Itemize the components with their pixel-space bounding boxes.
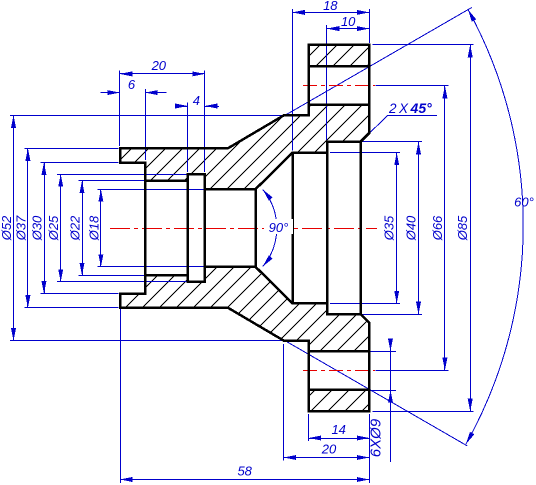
main axis centerline (110, 228, 377, 230)
extension line groove left top (187, 103, 189, 173)
svg-text:Ø37: Ø37 (13, 215, 28, 241)
cone top edge O35 (291, 153, 294, 304)
extension line Ø30 top (41, 162, 119, 164)
dimension line 6 left tail (101, 92, 120, 94)
bolt hole opening lower (309, 351, 370, 390)
extension line Ø18 top (97, 189, 254, 191)
extension line counterbore step top (145, 89, 147, 160)
part outline upper half (120, 45, 369, 189)
extension line Ø40 top (361, 141, 422, 143)
svg-text:60°: 60° (514, 195, 534, 210)
dimension line Ø35 (396, 153, 398, 304)
bore step edge O35/O40 (326, 142, 329, 314)
extension line Ø35 top (330, 152, 400, 154)
dimension line Ø40 (418, 142, 420, 314)
extension line bore face 18 (292, 9, 294, 151)
svg-text:Ø22: Ø22 (68, 215, 83, 241)
cone extension line upper 60deg (230, 8, 472, 148)
extension line Ø18 bottom (97, 266, 254, 268)
svg-text:20: 20 (321, 441, 337, 456)
svg-text:Ø85: Ø85 (455, 215, 470, 241)
extension line Ø35 bottom (330, 303, 400, 305)
extension line shelf bottom (283, 344, 285, 461)
bolt hole opening upper (309, 66, 370, 105)
part outline lower half (120, 267, 369, 411)
dimension line 4 left tail (178, 106, 188, 108)
extension line Ø22 top (79, 180, 145, 182)
dimension line 20 top (120, 73, 205, 75)
dimension line Ø18 (100, 189, 102, 267)
dimension line Ø25 (60, 174, 62, 282)
extension line Ø22 bottom (79, 275, 145, 277)
text mask 90deg (264, 219, 293, 234)
leader line chamfer (370, 115, 388, 133)
svg-text:90°: 90° (269, 220, 289, 235)
extension line Ø37 bottom (24, 307, 118, 309)
bolt hole upper edge top (309, 65, 370, 68)
dimension line 14 (309, 438, 370, 440)
dimension line Ø22 (82, 181, 84, 276)
groove right edge (204, 174, 207, 282)
angle arc 90deg (263, 189, 277, 266)
dimension line Ø52 (13, 115, 15, 340)
dimension line 58 (120, 479, 369, 481)
groove left edge (186, 174, 189, 282)
svg-text:Ø52: Ø52 (0, 215, 14, 241)
svg-text:58: 58 (237, 463, 252, 478)
extension line Ø66 bottom (375, 370, 448, 372)
chamfer edge O40 (360, 142, 363, 314)
extension line Ø25 top (57, 174, 186, 176)
svg-text:2X45°: 2X45° (388, 100, 432, 116)
svg-text:Ø66: Ø66 (430, 215, 445, 241)
extension line Ø37 top (24, 148, 118, 150)
svg-text:14: 14 (331, 422, 345, 437)
dimension line 18 (292, 12, 369, 14)
svg-text:6: 6 (128, 77, 136, 92)
bolt circle centerline lower (303, 370, 375, 372)
dimension line Ø37 (27, 148, 29, 307)
extension line Ø52 top (10, 115, 284, 117)
svg-text:6XØ9: 6XØ9 (368, 418, 385, 457)
bolt hole lower edge bottom (309, 350, 370, 353)
dimension line 6 right tail (145, 92, 167, 94)
cone base edge O18 (254, 189, 257, 267)
extension line Ø30 bottom (41, 293, 119, 295)
cone extension line lower 60deg (230, 309, 467, 446)
extension line right face top (369, 9, 371, 43)
svg-text:18: 18 (323, 0, 338, 13)
dimension line 20 bottom (284, 457, 370, 459)
svg-text:4: 4 (193, 93, 200, 108)
dimension line Ø85 (470, 45, 472, 411)
extension line Ø40 bottom (361, 314, 422, 316)
svg-text:10: 10 (341, 14, 356, 29)
extension line bolt hole bottom (369, 390, 396, 392)
bolt hole lower edge top (309, 104, 370, 107)
extension line Ø85 top (372, 44, 473, 46)
dimension line 10 (327, 28, 370, 30)
bolt hole upper edge bottom (309, 389, 370, 392)
dimension line Ø30 (44, 163, 46, 294)
extension line counterbore 10 (326, 25, 328, 140)
leader shelf chamfer (388, 115, 437, 117)
extension line Ø85 bottom (372, 411, 473, 413)
dimension line 6x9 (390, 342, 392, 463)
dimension line Ø66 (444, 86, 446, 370)
angle arc 60deg (466, 10, 523, 445)
extension line right face bottom (369, 414, 371, 483)
extension line flange left face bottom (308, 414, 310, 441)
extension line Ø25 bottom (57, 281, 186, 283)
svg-text:Ø35: Ø35 (382, 215, 397, 241)
svg-text:Ø18: Ø18 (86, 215, 101, 241)
svg-text:Ø40: Ø40 (404, 215, 419, 241)
extension line left face bottom (120, 309, 122, 484)
svg-text:20: 20 (151, 58, 167, 73)
bore step edge O30/O22 (144, 163, 147, 294)
bolt circle centerline upper (303, 85, 375, 87)
svg-text:Ø25: Ø25 (46, 215, 61, 241)
extension line Ø66 top (375, 85, 448, 87)
svg-text:Ø30: Ø30 (30, 215, 45, 241)
extension line Ø52 bottom (10, 340, 284, 342)
extension line groove right top (204, 70, 206, 172)
dimension line 4 right tail (205, 106, 219, 108)
extension line left face top (119, 70, 121, 146)
extension line bolt hole top (369, 351, 396, 353)
